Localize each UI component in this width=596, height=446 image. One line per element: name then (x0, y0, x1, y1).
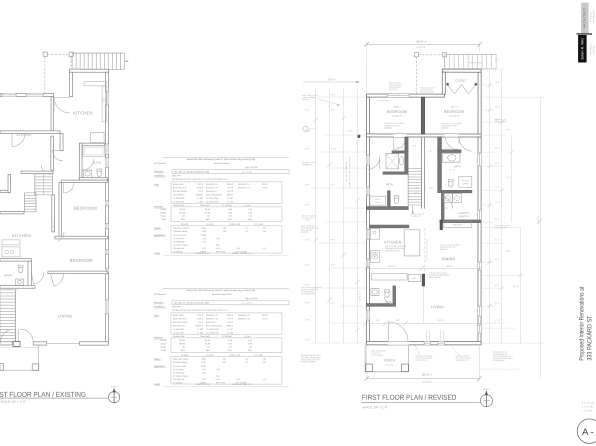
svg-text:Conditions: Conditions (154, 174, 165, 177)
svg-text:(EXISTG): (EXISTG) (417, 47, 426, 49)
svg-text:A R C H I T E C T: A R C H I T E C T (582, 7, 586, 28)
kitchen lower counter right plan (371, 274, 407, 280)
svg-text:LIVING: LIVING (431, 305, 444, 309)
svg-text:CLOSET: CLOSET (455, 78, 467, 82)
svg-text:3'-4": 3'-4" (495, 240, 499, 242)
svg-text:TL Actual Defl: TL Actual Defl (206, 197, 219, 200)
svg-text:FIRST FLOOR PLAN / EXISTING: FIRST FLOOR PLAN / EXISTING (0, 390, 86, 399)
wall exterior right left plan with windows (105, 72, 109, 343)
svg-text:Adjustmnts: Adjustmnts (154, 365, 166, 368)
svg-text:WINDOW AS REQD: WINDOW AS REQD (301, 360, 317, 363)
kitchen2 counter and range (2, 240, 20, 257)
svg-text:BEDROOM: BEDROOM (444, 110, 464, 114)
svg-text:3'-2": 3'-2" (331, 265, 335, 267)
svg-text:1'-10": 1'-10" (305, 220, 311, 222)
post center bottom door left plan (13, 342, 20, 347)
svg-text:Reference Values: Reference Values (173, 359, 189, 361)
wall interior below bedrooms right plan (366, 134, 481, 137)
dimension string stack right of right plan (481, 69, 545, 378)
wall shelves right plan (440, 220, 481, 230)
note porch left (371, 351, 385, 357)
door arc bath1 (82, 159, 94, 171)
svg-text:Bm Wt Included: Bm Wt Included (173, 321, 187, 324)
wall bath1 shower top (392, 151, 408, 153)
svg-text:LL Actual Defl: LL Actual Defl (206, 200, 219, 203)
toilet bath1 (97, 169, 102, 177)
dimension bedroom2 width (450, 106, 458, 109)
svg-text:LL Max Defl: LL Max Defl (173, 332, 184, 334)
svg-text:64%: 64% (206, 350, 210, 352)
svg-text:7'-8": 7'-8" (413, 146, 417, 148)
toilet bath1 right plan (394, 196, 399, 204)
wall bath1 mid (383, 172, 408, 174)
svg-text:24230 '#: 24230 '# (195, 194, 204, 196)
dimension line top right plan (364, 40, 482, 92)
svg-text:3'-0": 3'-0" (305, 149, 309, 151)
svg-text:DINING: DINING (442, 257, 456, 261)
svg-text:Uniform TL: 1051 1-8: Uniform TL: 1051 1-8 (232, 253, 252, 255)
door arc bedroom2 (54, 222, 64, 241)
svg-text:82%: 82% (228, 219, 232, 221)
dim bath2 inner (449, 170, 456, 172)
room label CLOSET (455, 78, 467, 82)
dimension bedroom1 width (393, 106, 401, 109)
sink vanity bath1 (83, 170, 92, 177)
svg-text:1'-10": 1'-10" (495, 320, 501, 322)
keynote bubble left (303, 126, 315, 131)
svg-text:175 #: 175 # (198, 191, 204, 193)
fixtures bath3 right plan (371, 289, 389, 298)
door front entry right plan (388, 322, 409, 345)
toilet back bath (18, 265, 23, 273)
wall bath2 partition bottom (441, 190, 471, 192)
scale note left plan (0, 400, 25, 404)
svg-text:0.980: 0.980 (201, 366, 207, 368)
svg-text:5'-8": 5'-8" (495, 285, 499, 287)
logo strip ARCHITECT (581, 3, 589, 34)
wall between bedrooms left plan (55, 236, 108, 239)
note new joists (450, 345, 471, 362)
wall hall-bedroom2 (52, 195, 55, 232)
wall exterior left right plan with windows (366, 97, 370, 344)
svg-text:85%: 85% (248, 350, 252, 352)
kitchen range right plan (370, 251, 379, 263)
dim texts stair top right plan (413, 146, 433, 153)
svg-text:(EXISTG): (EXISTG) (385, 365, 394, 367)
svg-text:Date: 6/15/09: Date: 6/15/09 (245, 297, 258, 300)
svg-text:3015 #: 3015 # (227, 315, 234, 317)
door arc hall 2 (53, 150, 64, 161)
closet left plan (91, 132, 104, 142)
svg-text:108.89: 108.89 (179, 343, 186, 345)
note wall location left (301, 225, 319, 234)
svg-text:108.89: 108.89 (179, 212, 186, 214)
svg-text:BATH: BATH (386, 182, 393, 186)
svg-text:(VERIFY): (VERIFY) (302, 99, 310, 101)
dim window bedroom1 (377, 100, 389, 102)
svg-text:114.33: 114.33 (179, 340, 186, 342)
svg-text:13.0 ft: 13.0 ft (197, 183, 203, 186)
svg-text:4'-6": 4'-6" (495, 107, 499, 109)
svg-text:SHELVES: SHELVES (453, 225, 463, 227)
walls bath1 left plan (80, 143, 108, 180)
svg-text:TO 2ND FLR: TO 2ND FLR (411, 216, 422, 218)
svg-text:CF Size Factor: CF Size Factor (173, 365, 187, 368)
svg-text:KITCHEN: KITCHEN (73, 110, 93, 115)
door arc back bath (31, 272, 44, 284)
svg-text:2'0 x 3'0 WDW: 2'0 x 3'0 WDW (377, 100, 389, 102)
svg-text:Max Moment: Max Moment (173, 193, 185, 196)
north arrow left plan (109, 386, 120, 403)
svg-text:Values: Values (154, 359, 161, 361)
room label LAUNDRY PANTRY (457, 212, 471, 218)
svg-text:LIVING: LIVING (57, 313, 72, 318)
svg-text:31.45: 31.45 (205, 212, 211, 214)
svg-text:BATH: BATH (454, 164, 461, 168)
svg-text:Cl Stability: Cl Stability (173, 250, 182, 253)
svg-text:10'4" ±: 10'4" ± (437, 319, 445, 322)
logo side text (589, 10, 595, 55)
marker dot left wall (357, 135, 360, 138)
svg-text:Uniform TL: 1051 1-8: Uniform TL: 1051 1-8 (232, 384, 252, 386)
svg-text:114.33: 114.33 (179, 209, 186, 211)
tub bath1 (83, 146, 105, 157)
svg-text:Min Bearing Area R1= 3.4 in: Min Bearing Area R1= 3.4 in2 R2= 3.4 in2… (172, 309, 228, 312)
svg-text:(ABOVE): (ABOVE) (441, 127, 449, 130)
svg-text:BEDROOM: BEDROOM (74, 206, 97, 211)
svg-text:1'-10": 1'-10" (331, 149, 337, 151)
svg-text:Status: Status (160, 346, 166, 349)
wall stub by refrigerator (422, 274, 425, 323)
svg-text:(NO CHANGE): (NO CHANGE) (371, 354, 383, 357)
svg-text:KITCHEN: KITCHEN (12, 233, 31, 238)
room label BATH left plan (93, 161, 101, 165)
room label BEDROOM 2 right plan (444, 110, 464, 118)
door arc laundry (442, 196, 453, 209)
washer dryer laundry (443, 194, 462, 203)
svg-text:Reaction 2 LL: Reaction 2 LL (238, 183, 251, 186)
room label BATH upper right plan (386, 182, 393, 186)
wall kitchen2 top (0, 211, 24, 213)
svg-text:15'2" ±: 15'2" ± (446, 265, 454, 268)
svg-text:3'-4": 3'-4" (305, 110, 309, 112)
svg-text:Edwin R. Wier: Edwin R. Wier (580, 37, 584, 59)
svg-text:1'10": 1'10" (414, 192, 419, 194)
wall bedroom1 left (59, 182, 62, 236)
svg-text:20'-4": 20'-4" (513, 286, 519, 288)
svg-text:(2) 1.55e 14, 3.85 BC VersaLam: (2) 1.55e 14, 3.85 BC VersaLam 3100 (174, 171, 210, 174)
svg-text:Bm Wt Included: Bm Wt Included (173, 190, 187, 193)
title underline right plan (362, 401, 480, 403)
svg-text:6'-2": 6'-2" (495, 259, 499, 261)
svg-text:Maximum V: Maximum V (206, 191, 217, 193)
table BeamChek beam at kitchen (154, 157, 289, 255)
project title vertical text (579, 286, 594, 360)
scale note right plan (362, 405, 387, 409)
wall bath2 left side right plan (438, 137, 442, 193)
stair interior lower flight (25, 193, 37, 212)
dimension row lower right plan (364, 319, 482, 341)
door arc hall left (12, 133, 25, 146)
svg-text:Reaction 1 LL: Reaction 1 LL (206, 314, 219, 317)
wall exterior right right plan with windows (478, 72, 482, 344)
svg-text:REF: REF (412, 278, 417, 280)
wall interior living-kitchen (51, 96, 54, 132)
wall stair hall top (21, 171, 53, 173)
svg-text:Fc⊥ (psi): Fc⊥ (psi) (255, 354, 264, 357)
room label LIVING upper left plan (16, 132, 31, 137)
svg-text:95%: 95% (181, 350, 185, 352)
svg-text:7170 #: 7170 # (227, 187, 234, 189)
table BeamChek beam at living room (154, 288, 289, 386)
svg-text:175 #: 175 # (198, 322, 204, 324)
room label BATH 3 right plan (385, 300, 392, 304)
svg-text:Cr Repetition: Cr Repetition (173, 240, 185, 243)
svg-text:24230 '#: 24230 '# (195, 325, 204, 327)
svg-text:9'-0": 9'-0" (506, 251, 510, 253)
svg-text:EXISTING: EXISTING (389, 89, 398, 91)
svg-text:7170 #: 7170 # (262, 187, 269, 189)
stair interior mid left plan (35, 174, 53, 195)
door arc bath1 right plan (367, 157, 380, 170)
dim bath2 (444, 148, 451, 150)
svg-text:82%: 82% (228, 350, 232, 352)
svg-text:5'10" ±: 5'10" ± (388, 265, 396, 268)
svg-text:Selection: Selection (154, 170, 164, 173)
svg-text:CM Wet Use: CM Wet Use (173, 247, 185, 250)
deck dashed outline left plan (43, 52, 73, 93)
svg-text:Cd Duration: Cd Duration (173, 368, 184, 371)
svg-text:85%: 85% (248, 219, 252, 221)
note existing wall left (301, 286, 322, 295)
svg-text:2'4 x 8'0: 2'4 x 8'0 (441, 208, 448, 210)
svg-text:2'4 x 5'0: 2'4 x 5'0 (444, 148, 451, 150)
wall between bedrooms right plan (421, 97, 424, 134)
svg-text:Reaction 2 TL: Reaction 2 TL (238, 317, 251, 320)
svg-text:7170 #: 7170 # (227, 318, 234, 320)
svg-text:Ch Shear Stress: Ch Shear Stress (173, 244, 188, 247)
wall toilet nook bath1 (388, 191, 391, 209)
room label KITCHEN left plan (73, 110, 93, 115)
svg-text:L / 425: L / 425 (227, 332, 234, 334)
refrigerator right plan (408, 274, 421, 281)
svg-text:129 SQ FT: 129 SQ FT (392, 116, 403, 118)
svg-text:1'8" 2'4": 1'8" 2'4" (449, 170, 456, 172)
wall kitchen top right plan (369, 225, 408, 228)
note wall tight top left (302, 94, 340, 106)
svg-text:TO ORDERING: TO ORDERING (493, 360, 506, 362)
centerline kitchen dining (425, 228, 429, 272)
svg-text:Ch Shear Stress: Ch Shear Stress (173, 375, 188, 378)
door arc living2 (50, 274, 63, 287)
svg-text:CF Size Factor: CF Size Factor (173, 234, 187, 237)
wall bath2 top (438, 150, 461, 153)
svg-text:2'8 x 5'8: 2'8 x 5'8 (396, 147, 403, 149)
svg-text:L / 240: L / 240 (197, 329, 204, 331)
svg-text:9'-0" & 13'-1": 9'-0" & 13'-1" (359, 290, 361, 301)
svg-text:1'-4": 1'-4" (388, 187, 392, 189)
svg-text:11'-6": 11'-6" (506, 177, 511, 179)
svg-text:2'-8": 2'-8" (348, 131, 352, 133)
svg-text:2'-4": 2'-4" (331, 185, 335, 187)
svg-text:TO FOUNDATION: TO FOUNDATION (301, 292, 316, 295)
wall back bath top (0, 259, 31, 262)
sink back bath (16, 279, 24, 285)
wall laundry left right plan (441, 193, 444, 222)
svg-text:KITCHEN LAYOUT: KITCHEN LAYOUT (385, 249, 401, 252)
svg-text:Conditions: Conditions (154, 305, 165, 308)
sink bath1 right plan (399, 156, 403, 165)
room label LIVING right plan (431, 305, 444, 309)
svg-text:2'-8": 2'-8" (495, 82, 499, 84)
svg-text:3015 #: 3015 # (262, 184, 269, 186)
svg-text:Attributes: Attributes (154, 336, 164, 339)
svg-text:BACK: BACK (5, 273, 13, 277)
svg-text:(VERIFY): (VERIFY) (301, 232, 309, 234)
svg-text:3'-10": 3'-10" (305, 340, 311, 342)
revision dates (582, 402, 594, 412)
svg-text:Maximum V: Maximum V (206, 322, 217, 324)
svg-text:Max Moment: Max Moment (173, 324, 185, 327)
note existing wall right (495, 224, 511, 229)
svg-text:Data: Data (154, 314, 159, 317)
svg-text:LL Max Defl: LL Max Defl (173, 201, 184, 203)
note wainscot top (389, 83, 403, 97)
svg-text:L / 360: L / 360 (197, 332, 204, 334)
shower bath1 right plan (386, 154, 399, 169)
note stair risers (411, 214, 426, 218)
svg-text:Selection: Selection (154, 301, 164, 304)
svg-text:CM Wet Use: CM Wet Use (173, 378, 185, 381)
note rim right (495, 119, 507, 123)
svg-text:Adjusted Values: Adjusted Values (173, 230, 187, 233)
svg-text:Max V (Reduced): Max V (Reduced) (206, 325, 222, 327)
logo divider line (577, 33, 593, 35)
svg-text:Uniform LL: 917: Uniform LL: 917 (196, 384, 211, 386)
note remove door bottom left (301, 355, 321, 363)
room label KITCHEN 2 left plan (12, 233, 31, 238)
svg-text:1'-8": 1'-8" (495, 163, 499, 165)
door arc bath2 right plan (459, 137, 472, 151)
svg-text:7170 #: 7170 # (262, 318, 269, 320)
svg-text:Reference Values: Reference Values (173, 228, 189, 230)
note prelim framing right (493, 351, 514, 362)
svg-text:KITCHEN: KITCHEN (384, 240, 401, 244)
svg-text:3 - 8 - 09: 3 - 8 - 09 (584, 410, 593, 412)
wall bedroom1 top (61, 180, 107, 182)
door arc hall left right plan (394, 137, 407, 150)
stair exterior top right plan (445, 54, 496, 69)
svg-text:(STAIR 1ST FLOOR TO 2ND FLOOR): (STAIR 1ST FLOOR TO 2ND FLOOR) (348, 156, 351, 187)
title right plan (362, 393, 457, 402)
svg-text:Max V (Reduced): Max V (Reduced) (206, 194, 222, 196)
svg-text:L / 425: L / 425 (227, 201, 234, 203)
svg-text:(EXISTG): (EXISTG) (423, 381, 432, 383)
svg-text:SCALE: 1/4" = 1'-0": SCALE: 1/4" = 1'-0" (362, 405, 387, 409)
stair exterior top-left plan (72, 53, 129, 69)
svg-text:12.38 #: 12.38 # (196, 187, 204, 189)
svg-text:Cr Repetition: Cr Repetition (173, 371, 185, 374)
svg-text:(ABOVE): (ABOVE) (440, 248, 448, 251)
stair central right plan (408, 137, 424, 214)
svg-text:321 S MAIN ST: 321 S MAIN ST (589, 43, 592, 55)
svg-text:L / 287: L / 287 (227, 329, 234, 331)
svg-text:BeamChek v2010 licensed to: Ed: BeamChek v2010 licensed to: Edwin R. Wie… (187, 289, 256, 292)
room label BEDROOM 1 right plan (387, 110, 407, 118)
svg-text:W/O DFR: W/O DFR (172, 175, 181, 177)
svg-text:Status: Status (160, 215, 166, 218)
svg-text:9'-6": 9'-6" (331, 240, 335, 242)
svg-text:SCREEN: SCREEN (462, 183, 470, 185)
title left plan (0, 390, 86, 399)
svg-text:6'-10": 6'-10" (305, 131, 311, 133)
svg-text:64%: 64% (206, 219, 210, 221)
svg-text:RB = 5.98: RB = 5.98 (216, 251, 226, 253)
svg-text:BATH: BATH (93, 161, 101, 165)
svg-text:L / 240: L / 240 (197, 198, 204, 200)
svg-text:7170 #: 7170 # (227, 191, 234, 193)
svg-text:ANN ARBOR MI: ANN ARBOR MI (592, 10, 595, 23)
svg-text:(2) 1.55e 14, 3.85 BC VersaLam: (2) 1.55e 14, 3.85 BC VersaLam 3100 (174, 302, 210, 305)
svg-text:3015 #: 3015 # (227, 184, 234, 186)
shelves box right plan (444, 221, 471, 227)
svg-text:5'4": 5'4" (376, 319, 380, 322)
porch right plan (365, 345, 409, 372)
wall bath1 right plan right side (405, 137, 408, 174)
svg-text:L / 287: L / 287 (227, 198, 234, 200)
walls bath3 right plan (366, 286, 395, 306)
svg-text:(ABOVE): (ABOVE) (384, 127, 392, 130)
svg-text:333 PACKARD ST.: 333 PACKARD ST. (586, 314, 593, 360)
svg-text:2'-8": 2'-8" (305, 303, 309, 305)
note joists dining (440, 245, 460, 251)
svg-text:7170 #: 7170 # (227, 322, 234, 324)
note ceiling height (429, 273, 450, 279)
closet double doors (446, 83, 477, 94)
svg-text:Beam at Kitchen: Beam at Kitchen (214, 162, 230, 165)
wall living2 top (48, 271, 108, 274)
svg-text:23'-8" ±: 23'-8" ± (328, 77, 337, 81)
svg-text:26'-6" ±: 26'-6" ± (416, 40, 426, 44)
wall interior below living (0, 131, 60, 134)
door arc hall right right plan (446, 137, 459, 150)
porch left plan (0, 345, 39, 370)
kitchen counters left plan (84, 81, 106, 122)
svg-text:13'4" ±: 13'4" ± (393, 106, 401, 109)
note new wall left (302, 161, 316, 166)
svg-text:WALL BELOW: WALL BELOW (429, 276, 441, 279)
svg-text:HANGERS (TYP): HANGERS (TYP) (456, 359, 470, 362)
svg-text:95%: 95% (181, 219, 185, 221)
svg-text:W/O DFR: W/O DFR (172, 306, 181, 308)
svg-text:3'4": 3'4" (396, 319, 400, 322)
svg-text:1'10": 1'10" (429, 188, 434, 190)
svg-text:7'-4": 7'-4" (331, 303, 335, 305)
svg-text:4'-6": 4'-6" (305, 165, 309, 167)
svg-text:Reaction 1 TL: Reaction 1 TL (206, 317, 219, 320)
door arc hall right side (41, 165, 51, 175)
deck dashed outline right plan (414, 53, 446, 94)
svg-text:12.38 #: 12.38 # (196, 318, 204, 320)
north arrow right plan (480, 389, 492, 407)
svg-text:LIVING: LIVING (16, 132, 31, 137)
svg-text:EXISTG STAIR: EXISTG STAIR (469, 61, 483, 64)
kitchen counter sink right plan (370, 229, 379, 240)
svg-text:PORCH: PORCH (384, 358, 396, 362)
svg-text:3'-6": 3'-6" (495, 303, 499, 305)
svg-text:1'-6": 1'-6" (495, 119, 499, 121)
svg-text:3015 #: 3015 # (262, 315, 269, 317)
